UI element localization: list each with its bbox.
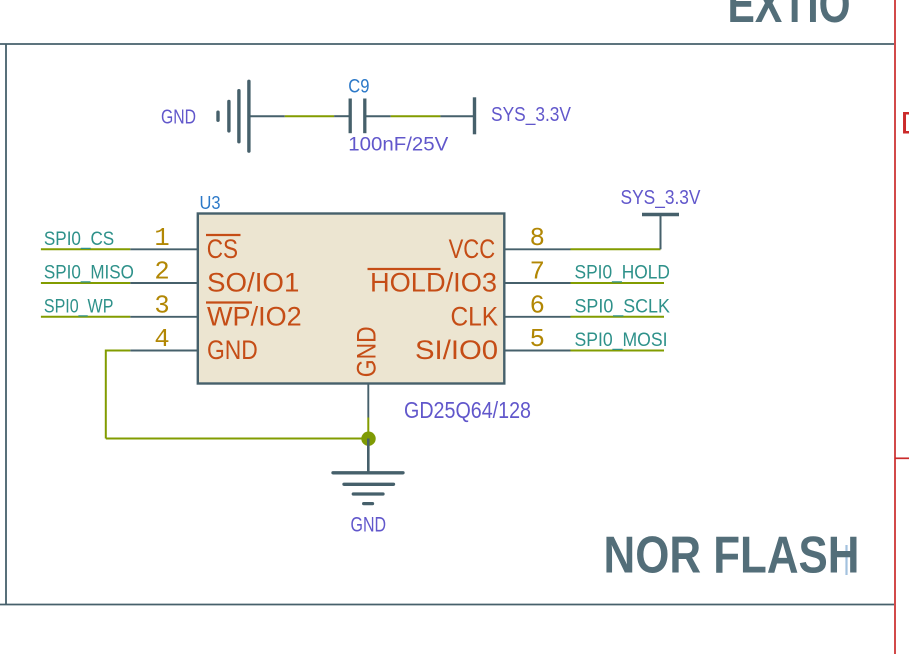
svg-text:NOR FLASH: NOR FLASH	[604, 526, 860, 584]
power symbol GND pin (bottom)	[367, 439, 370, 473]
power symbol SYS_3.3V bar (top)	[473, 97, 476, 134]
net label SPI0_WP	[41, 316, 130, 318]
svg-text:SPI0_HOLD: SPI0_HOLD	[575, 262, 670, 284]
power symbol SYS_3.3V bar (right)	[642, 213, 679, 216]
svg-text:GND: GND	[352, 326, 382, 377]
svg-text:SPI0_MISO: SPI0_MISO	[44, 262, 134, 284]
pin 4 stub	[130, 350, 198, 352]
pin 1 name CS overline	[206, 234, 241, 236]
capacitor C9 pin 2	[366, 115, 391, 117]
svg-text:SPI0_SCLK: SPI0_SCLK	[575, 295, 670, 317]
pin 7 stub	[505, 282, 571, 284]
pin of GND symbol	[249, 115, 285, 117]
svg-text:WP/IO2: WP/IO2	[207, 301, 302, 331]
svg-text:GND: GND	[351, 514, 387, 537]
svg-text:CS: CS	[207, 234, 238, 264]
net label SPI0_CS	[41, 248, 130, 250]
svg-text:D: D	[901, 107, 909, 144]
junction node	[361, 432, 375, 446]
svg-text:100nF/25V: 100nF/25V	[348, 135, 448, 156]
svg-text:C9: C9	[348, 76, 369, 98]
svg-text:SPI0_CS: SPI0_CS	[44, 228, 114, 250]
svg-text:SYS_3.3V: SYS_3.3V	[621, 187, 702, 209]
pin 6 stub	[505, 316, 571, 318]
svg-text:6: 6	[530, 291, 545, 320]
svg-text:VCC: VCC	[449, 234, 496, 264]
svg-text:GD25Q64/128: GD25Q64/128	[404, 397, 531, 423]
frame left line	[5, 44, 7, 605]
svg-text:CLK: CLK	[451, 301, 499, 331]
svg-text:SYS_3.3V: SYS_3.3V	[491, 104, 572, 126]
pin 7 name HOLD/IO3 overline	[368, 268, 441, 270]
net label SPI0_SCLK	[571, 316, 665, 318]
wire pin4 left	[106, 350, 130, 352]
svg-text:SI/IO0: SI/IO0	[415, 335, 498, 365]
svg-text:8: 8	[530, 224, 545, 253]
power symbol GND bars (bottom)	[333, 473, 403, 504]
net label SPI0_MOSI	[571, 350, 665, 352]
page border red vertical	[894, 0, 896, 654]
pin 2 stub	[130, 282, 198, 284]
pin 3 stub	[130, 316, 198, 318]
wire C9 to SYS_3.3V	[391, 115, 441, 117]
svg-text:EXTIO: EXTIO	[728, 0, 851, 33]
power symbol SYS_3.3V pin (top)	[440, 115, 474, 117]
power symbol SYS_3.3V pin (right)	[660, 216, 662, 250]
svg-text:5: 5	[530, 325, 545, 354]
svg-text:SPI0_WP: SPI0_WP	[44, 295, 114, 317]
frame top line	[0, 43, 894, 45]
wire pin8 to SYS_3.3V	[571, 248, 661, 250]
wire bottom horizontal to junction	[106, 438, 369, 440]
wire IC GND pin to junction	[367, 418, 369, 439]
page border red tick	[895, 457, 909, 459]
svg-text:7: 7	[530, 258, 545, 287]
svg-text:HOLD/IO3: HOLD/IO3	[370, 268, 497, 298]
wire GND to C9	[285, 115, 334, 117]
frame bottom line	[0, 604, 894, 606]
net label SPI0_MISO	[41, 282, 130, 284]
pin 1 stub	[130, 248, 198, 250]
power symbol GND (top, battery-style earth)	[218, 81, 249, 151]
capacitor C9 plates	[349, 99, 352, 134]
wire pin4 down	[105, 350, 107, 439]
svg-text:3: 3	[154, 291, 169, 320]
svg-text:GND: GND	[207, 335, 258, 365]
svg-text:4: 4	[154, 325, 169, 354]
svg-text:2: 2	[154, 258, 169, 287]
svg-text:SPI0_MOSI: SPI0_MOSI	[575, 329, 668, 351]
pin 3 name WP/IO2 overline	[206, 301, 252, 303]
pin 5 stub	[505, 350, 571, 352]
svg-text:GND: GND	[161, 106, 196, 129]
svg-text:SO/IO1: SO/IO1	[207, 268, 299, 298]
svg-text:1: 1	[154, 224, 169, 253]
svg-text:U3: U3	[200, 193, 221, 213]
IC U3 body	[198, 214, 505, 384]
text cursor	[845, 545, 847, 575]
pin 8 stub	[505, 248, 571, 250]
capacitor C9 pin 1	[334, 115, 349, 117]
net label SPI0_HOLD	[571, 282, 665, 284]
IC GND pin stub (bottom)	[367, 384, 369, 418]
